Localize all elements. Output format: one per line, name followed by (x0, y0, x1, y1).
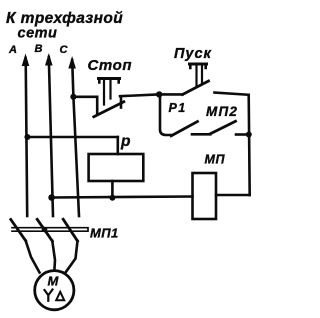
svg-text:С: С (60, 44, 69, 56)
svg-text:М: М (48, 274, 60, 289)
svg-text:А: А (8, 44, 17, 56)
svg-text:В: В (35, 43, 43, 55)
svg-text:Р1: Р1 (169, 101, 187, 115)
svg-text:МП: МП (205, 153, 226, 167)
svg-text:сети: сети (18, 26, 58, 42)
svg-text:р: р (120, 133, 130, 150)
svg-text:К трехфазной: К трехфазной (6, 10, 123, 27)
svg-text:МП1: МП1 (90, 226, 119, 241)
svg-text:МП2: МП2 (206, 104, 238, 119)
svg-text:Стоп: Стоп (88, 57, 133, 74)
svg-text:Пуск: Пуск (174, 46, 212, 62)
